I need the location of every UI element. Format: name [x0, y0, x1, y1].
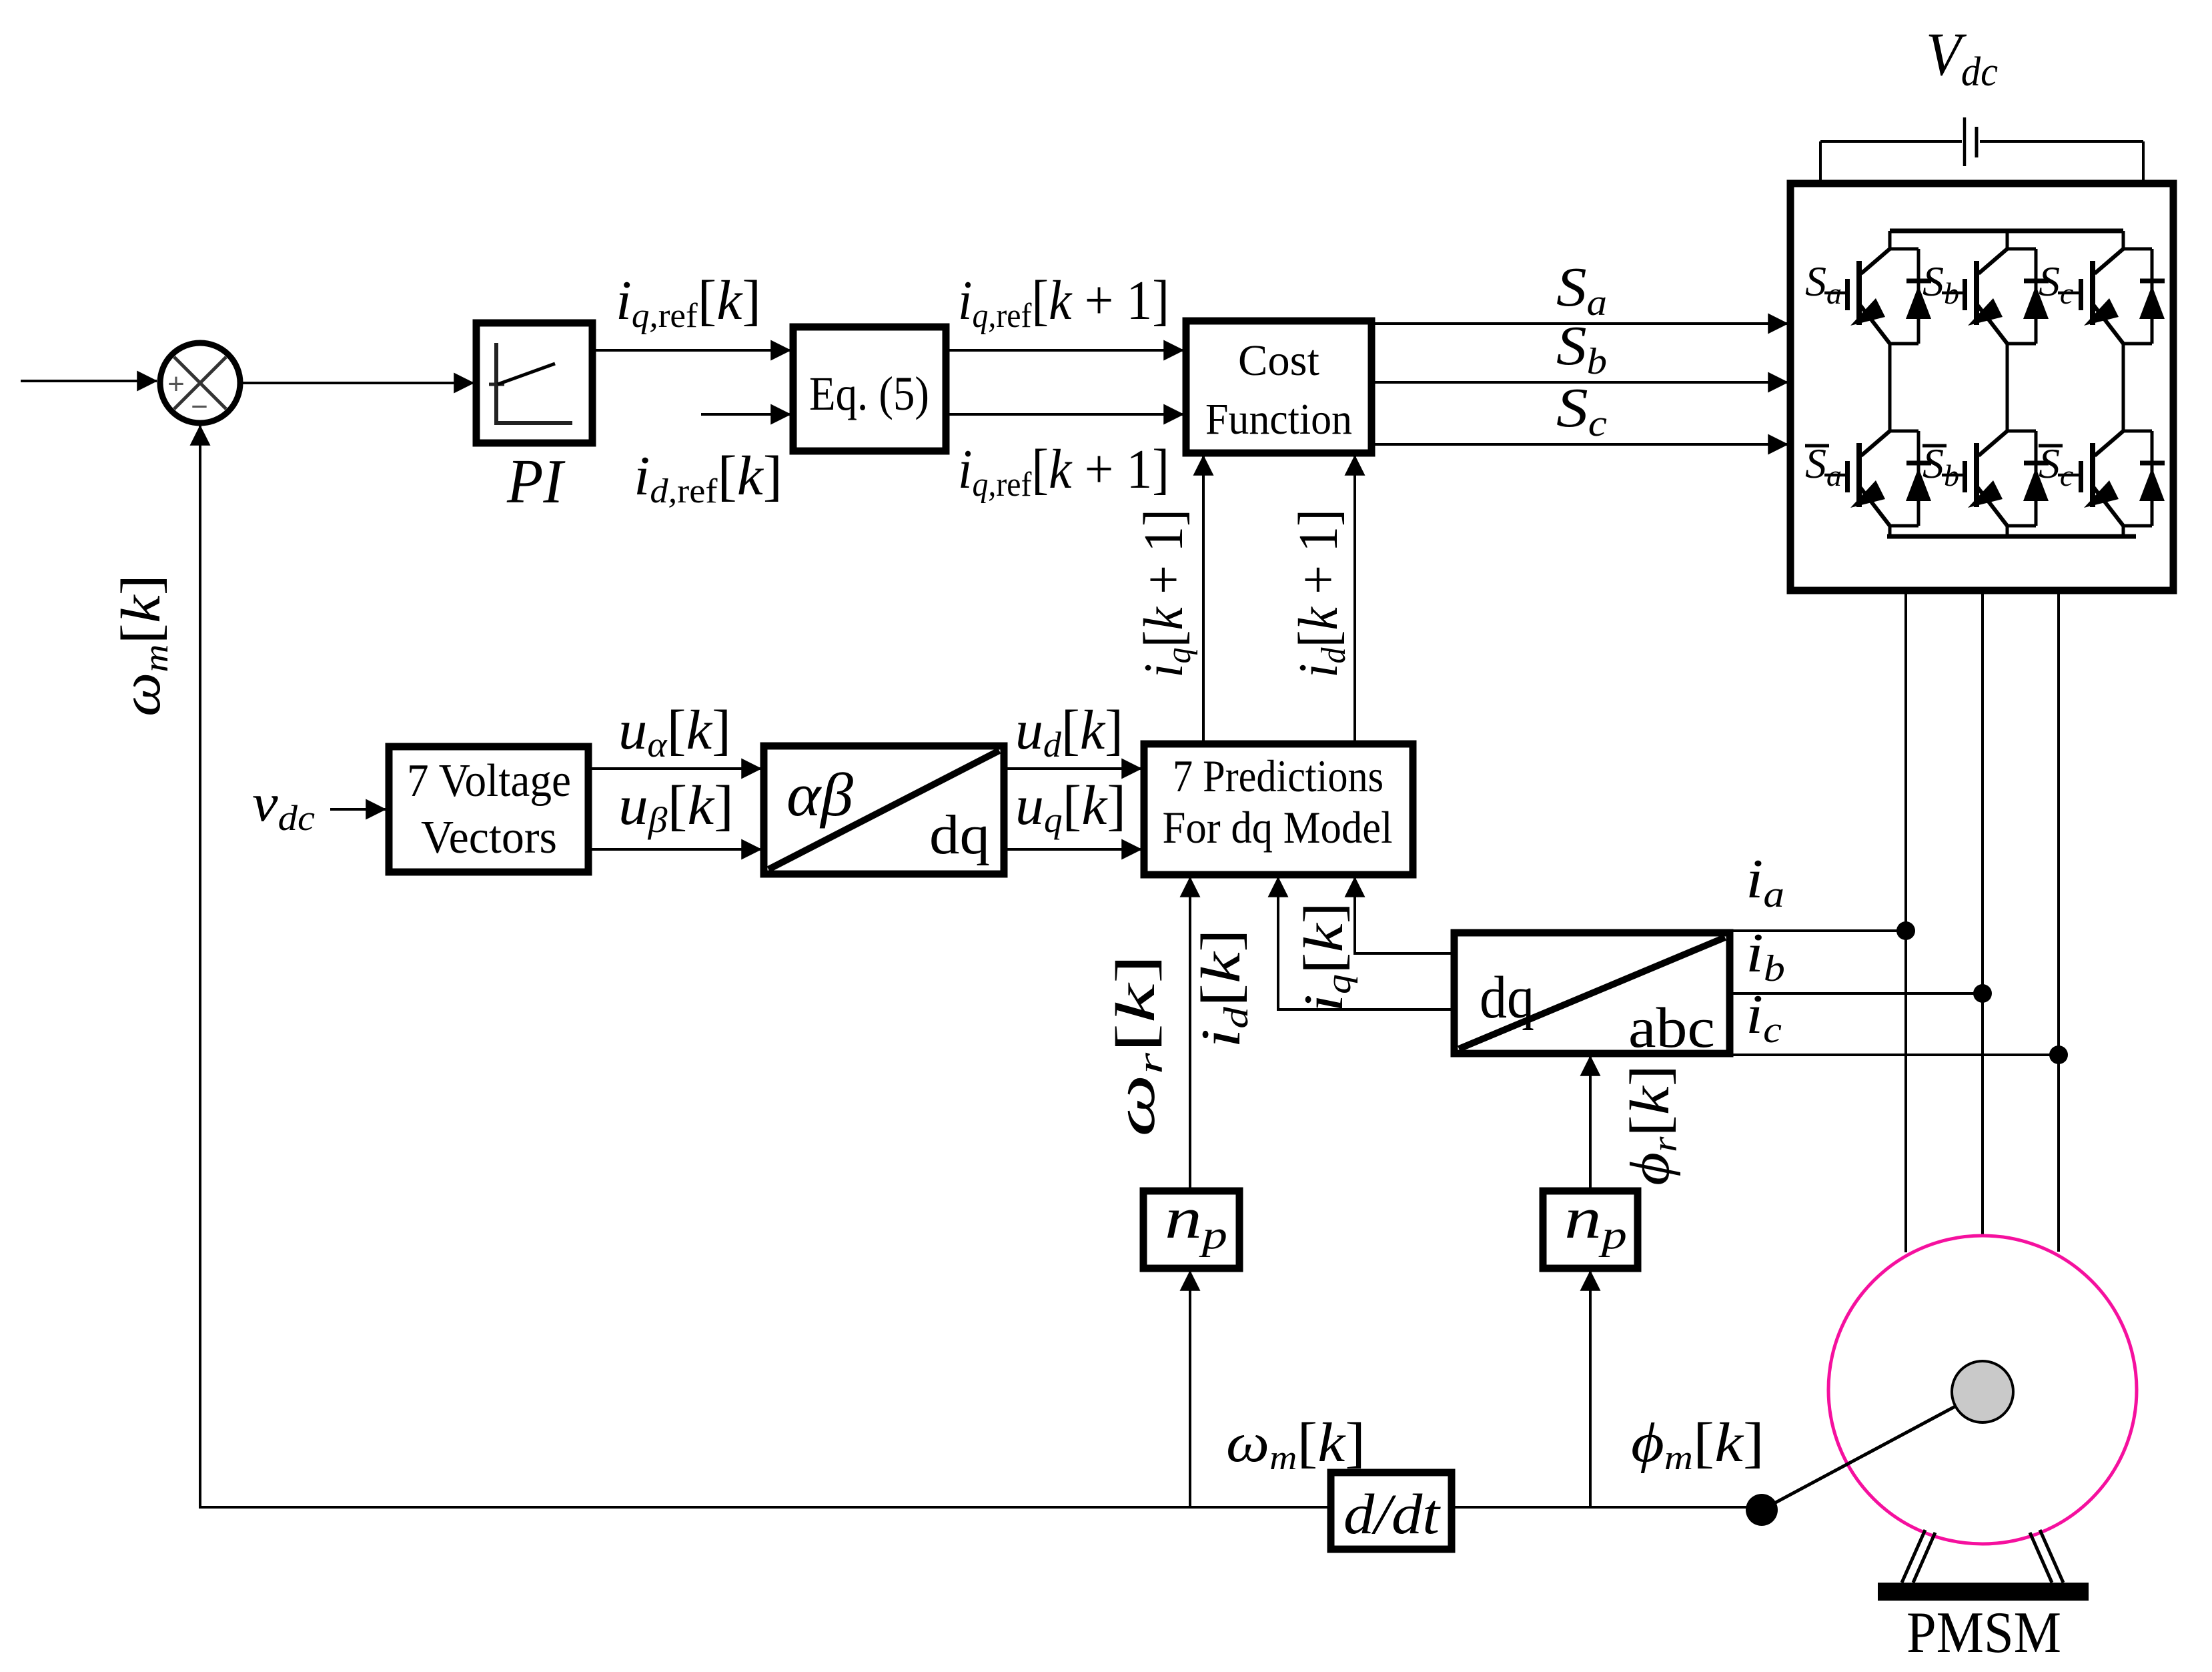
wire: S_a gate signal	[1371, 322, 1788, 325]
wire: phase a output	[1904, 590, 1907, 1252]
label Sc-bar	[2039, 440, 2073, 492]
svg-text:PI: PI	[506, 447, 565, 516]
wire: junction to PI	[243, 382, 474, 384]
PMSM stator circle	[1828, 1236, 2137, 1544]
summing junction	[160, 343, 240, 423]
transistor Sa (IGBT + diode)	[1824, 249, 1931, 344]
block 7 Predictions For dq Model	[1144, 744, 1413, 875]
wire: bottom feedback line	[200, 426, 1760, 1507]
svg-text:uq[k]: uq[k]	[1015, 775, 1126, 840]
wire: i_c line	[1730, 1054, 2059, 1056]
block alpha-beta to dq transform	[764, 746, 1004, 874]
wire: PI to Eq.(5), i_q,ref[k]	[592, 349, 790, 352]
inverter box	[1790, 183, 2173, 590]
block dq to abc transform	[1454, 933, 1730, 1060]
svg-text:dq: dq	[929, 804, 990, 866]
svg-text:Function: Function	[1205, 395, 1352, 444]
transistor Sa-bar (IGBT + diode)	[1824, 431, 1931, 526]
wire: S_b gate signal	[1371, 381, 1788, 384]
svg-text:abc: abc	[1628, 995, 1715, 1060]
wire: omega_r[k] into predictions	[1189, 877, 1191, 1191]
wire: i_b line	[1730, 992, 1983, 995]
wire: Eq.(5) to Cost Function lower	[946, 413, 1183, 416]
block Cost Function	[1186, 321, 1371, 453]
svg-text:Cost: Cost	[1238, 336, 1319, 385]
shaft line	[1764, 1392, 1983, 1509]
wire: u_d to predictions	[1004, 767, 1141, 770]
block n_p (speed)	[1143, 1186, 1239, 1268]
transistor Sb (IGBT + diode)	[1942, 249, 2049, 344]
svg-text:ωr[k]: ωr[k]	[1105, 954, 1170, 1137]
svg-text:uβ[k]: uβ[k]	[618, 775, 734, 840]
inverter DC- rail	[1887, 534, 2136, 539]
node i_b junction	[1973, 984, 1992, 1003]
transistor Sb-bar (IGBT + diode)	[1942, 431, 2049, 526]
svg-text:ϕr[k]: ϕr[k]	[1619, 1065, 1684, 1186]
wire: omega_m to np1	[1189, 1271, 1191, 1507]
node i_c junction	[2049, 1046, 2068, 1064]
battery V_dc	[1820, 117, 2143, 183]
wire: S_c gate signal	[1371, 443, 1788, 446]
wire: phi_r[k] into dq/abc	[1589, 1056, 1592, 1191]
svg-text:−: −	[191, 390, 208, 423]
svg-text:id[k]: id[k]	[1190, 929, 1255, 1048]
wire: i_a line	[1730, 929, 1906, 932]
wire: i_d[k+1] predictions to cost function	[1353, 456, 1356, 744]
wire: u_q to predictions	[1004, 848, 1141, 851]
wire: rail stubs to cells	[1890, 231, 2123, 249]
inverter DC+ rail	[1890, 229, 2123, 234]
svg-text:d/dt: d/dt	[1343, 1482, 1441, 1546]
wire: u_beta to alpha-beta/dq	[587, 848, 761, 851]
label Sb-bar	[1922, 440, 1959, 492]
wire: reference speed input	[21, 380, 157, 382]
svg-text:iq[k]: iq[k]	[1293, 902, 1358, 1012]
svg-text:ud[k]: ud[k]	[1015, 699, 1123, 765]
svg-text:uα[k]: uα[k]	[618, 699, 731, 765]
transistor Sc (IGBT + diode)	[2058, 249, 2165, 344]
svg-text:For dq Model: For dq Model	[1163, 802, 1393, 853]
wire: i_d[k] into predictions	[1278, 877, 1454, 1009]
wire: Eq.(5) to Cost Function upper, i_q,ref[k+1]	[946, 349, 1183, 352]
block 7 Voltage Vectors	[389, 747, 588, 872]
node i_a junction	[1896, 921, 1915, 940]
block Eq. (5)	[793, 327, 946, 451]
svg-text:Vectors: Vectors	[421, 812, 557, 863]
rotor circle	[1952, 1361, 2013, 1422]
wire: v_dc to 7 Voltage Vectors	[330, 808, 386, 811]
shaft sensor node	[1746, 1494, 1778, 1526]
svg-text:PMSM: PMSM	[1906, 1601, 2061, 1665]
PI block	[476, 323, 592, 443]
motor base	[1878, 1583, 2089, 1601]
svg-text:7 Predictions: 7 Predictions	[1173, 751, 1384, 801]
wire: i_q[k+1] predictions to cost function	[1202, 456, 1205, 744]
wire: i_q[k] into predictions	[1355, 877, 1454, 953]
svg-text:ϕm[k]: ϕm[k]	[1631, 1412, 1764, 1477]
motor legs	[1902, 1530, 2063, 1583]
svg-text:+: +	[167, 368, 185, 400]
wire: i_d,ref[k] input to Eq.(5)	[701, 413, 790, 416]
transistor Sc-bar (IGBT + diode)	[2058, 431, 2165, 526]
wire: phase c output	[2057, 590, 2060, 1252]
svg-text:dq: dq	[1480, 965, 1534, 1031]
wire: phase b output	[1981, 590, 1984, 1236]
svg-text:Eq. (5): Eq. (5)	[809, 367, 929, 420]
block n_p (angle)	[1543, 1186, 1638, 1268]
svg-text:7 Voltage: 7 Voltage	[407, 755, 571, 807]
block d/dt	[1331, 1473, 1452, 1549]
label Sa-bar	[1805, 440, 1842, 492]
svg-text:αβ: αβ	[786, 761, 853, 829]
wire: u_alpha to alpha-beta/dq	[587, 767, 761, 770]
wire: phi_m to np2	[1589, 1271, 1592, 1507]
wire: phase mid connectors	[1890, 344, 2123, 431]
